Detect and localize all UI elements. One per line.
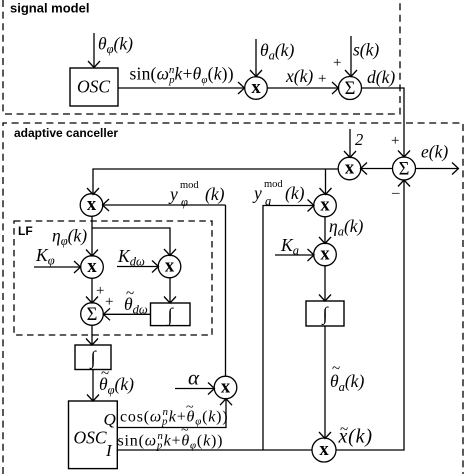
wire K-phi into MKphi xyxy=(34,266,80,268)
svg-text:Kdω: Kdω xyxy=(117,246,145,269)
svg-text:sin(ωpnk+θφ(k)): sin(ωpnk+θφ(k)) xyxy=(130,64,234,87)
multiplier Mxtilde circle xyxy=(312,438,336,462)
wire constant 2 into M2 xyxy=(349,129,351,157)
svg-text:OSC: OSC xyxy=(74,428,107,448)
svg-text:2: 2 xyxy=(355,130,363,149)
svg-text:a: a xyxy=(265,194,271,208)
svg-text:Σ: Σ xyxy=(87,305,98,325)
svg-text:Σ: Σ xyxy=(345,79,356,99)
integrator block (phi branch) xyxy=(75,345,111,370)
summer S1 circle xyxy=(339,77,362,100)
wire s(k) into S1 xyxy=(350,36,352,76)
multiplier M2 circle xyxy=(338,157,361,180)
svg-text:signal model: signal model xyxy=(10,1,89,16)
svg-text:sin(ωpnk+θφ(k)): sin(ωpnk+θφ(k)) xyxy=(118,430,224,452)
svg-text:mod: mod xyxy=(264,179,283,190)
wire K-domega into MKdomega xyxy=(117,266,158,268)
svg-text:α: α xyxy=(188,366,200,390)
svg-text:+: + xyxy=(318,71,326,87)
svg-text:φ: φ xyxy=(181,195,188,209)
svg-text:ηa(k): ηa(k) xyxy=(329,216,364,239)
svg-text:∫: ∫ xyxy=(166,305,174,327)
LF dashed box xyxy=(14,221,212,335)
wire cos output to Malpha xyxy=(118,399,226,428)
wire theta-a into M1 xyxy=(255,39,257,76)
wire M1 to summer S1 xyxy=(267,87,338,89)
wire M2 output to multiplier Mphi xyxy=(93,169,339,194)
svg-text:s(k): s(k) xyxy=(353,40,379,60)
svg-text:ηφ(k): ηφ(k) xyxy=(52,226,87,249)
svg-text:~: ~ xyxy=(186,400,194,415)
svg-text:θa(k): θa(k) xyxy=(260,40,294,63)
oscillator OSC1 block xyxy=(70,68,118,106)
wire e(k) output xyxy=(416,168,459,170)
wire K-a into MKa xyxy=(275,254,314,256)
wire alpha into Malpha xyxy=(175,388,214,390)
svg-text:~: ~ xyxy=(340,422,348,438)
svg-text:Kφ: Kφ xyxy=(35,245,55,268)
svg-text:adaptive canceller: adaptive canceller xyxy=(14,126,118,140)
integrator block (domega branch) xyxy=(151,303,191,326)
multiplier MKa circle xyxy=(314,243,337,266)
svg-text:(k): (k) xyxy=(205,184,225,204)
svg-text:x: x xyxy=(251,78,261,98)
integrator block (a branch) xyxy=(306,301,344,326)
wire Mxtilde output up to S2 minus input xyxy=(336,181,404,451)
wire branch to multiplier Ma xyxy=(325,169,327,194)
svg-text:~: ~ xyxy=(332,361,340,377)
signal model dashed box xyxy=(3,0,400,114)
svg-text:x: x xyxy=(87,195,97,215)
multiplier MKphi circle xyxy=(81,256,104,279)
multiplier M1 circle xyxy=(245,77,268,100)
svg-text:x: x xyxy=(320,196,330,216)
svg-text:θφ(k): θφ(k) xyxy=(98,34,133,57)
wire d(k): S1 to summer S2 xyxy=(362,88,405,157)
svg-text:x: x xyxy=(221,378,231,398)
svg-text:+: + xyxy=(391,133,399,149)
svg-text:+: + xyxy=(96,283,104,299)
svg-text:+: + xyxy=(105,294,113,310)
wire MKdomega to integrator xyxy=(169,278,171,303)
wire OSC1 output to multiplier M1 xyxy=(118,87,244,89)
oscillator OSC2 block xyxy=(69,401,118,469)
wire sin output to Mxtilde xyxy=(118,449,312,451)
wire integrator phi to OSC2 (theta-phi-hat) xyxy=(92,370,94,401)
wire Ma to MKa (eta-a) xyxy=(324,217,326,244)
svg-text:Ka: Ka xyxy=(280,235,299,258)
multiplier Mphi circle xyxy=(80,194,103,217)
svg-text:Q: Q xyxy=(104,410,116,429)
svg-text:~: ~ xyxy=(181,423,189,438)
svg-text:e(k): e(k) xyxy=(421,142,448,162)
wire S2 to multiplier M2 xyxy=(361,168,393,170)
svg-text:OSC: OSC xyxy=(77,77,110,97)
svg-text:mod: mod xyxy=(180,180,199,191)
svg-text:x: x xyxy=(87,257,97,277)
svg-text:y: y xyxy=(168,184,178,204)
svg-text:d(k): d(k) xyxy=(367,67,395,87)
svg-text:∫: ∫ xyxy=(89,348,97,370)
svg-text:∫: ∫ xyxy=(321,304,329,326)
svg-text:I: I xyxy=(105,441,113,460)
svg-text:–: – xyxy=(391,185,400,201)
svg-text:cos(ωpnk+θφ(k)): cos(ωpnk+θφ(k)) xyxy=(120,406,228,428)
svg-text:x: x xyxy=(319,440,329,460)
adaptive canceller dashed box xyxy=(3,123,463,474)
wire integrator a to Mxtilde (theta-a-hat) xyxy=(324,326,326,438)
svg-text:x: x xyxy=(165,257,175,277)
svg-text:Σ: Σ xyxy=(399,160,410,180)
multiplier Malpha circle xyxy=(214,376,237,399)
wire integrator to Sphi (theta-domega feedback) xyxy=(104,313,151,315)
svg-text:y: y xyxy=(252,183,262,203)
svg-text:x: x xyxy=(345,159,355,179)
summer S2 circle xyxy=(393,157,416,180)
multiplier Ma circle xyxy=(314,194,337,217)
svg-text:~: ~ xyxy=(101,366,109,382)
wire y-a-mod branch from sin line up into Ma xyxy=(263,206,314,451)
wire Mphi down to MKphi with branch xyxy=(91,216,93,256)
wire MKa to integrator a xyxy=(324,266,326,301)
svg-text:(k): (k) xyxy=(285,183,305,203)
wire Malpha up to y-phi-mod line xyxy=(225,205,227,377)
svg-text:x: x xyxy=(320,245,330,265)
wire y-phi-mod into Mphi xyxy=(103,204,226,206)
summer Sphi circle xyxy=(81,303,104,326)
wire branch eta-phi to MKdomega xyxy=(92,228,170,255)
wire Sphi to integrator phi xyxy=(91,325,93,344)
svg-text:~: ~ xyxy=(126,286,134,302)
svg-text:+: + xyxy=(333,55,341,71)
multiplier MKdomega circle xyxy=(158,255,181,278)
svg-text:LF: LF xyxy=(18,224,33,238)
wire MKphi to summer Sphi xyxy=(91,278,93,303)
wire theta-phi into OSC1 xyxy=(93,33,95,67)
svg-text:x(k): x(k) xyxy=(285,66,313,86)
